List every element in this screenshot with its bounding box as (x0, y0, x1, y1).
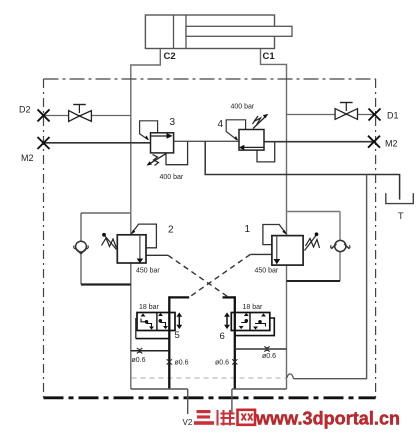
svg-text:18 bar: 18 bar (243, 304, 264, 311)
check valve right (331, 240, 350, 251)
wire drain drop to tank gallery (205, 141, 399, 199)
watermark 维 (218, 410, 236, 426)
counterbalance valve 1 body (272, 236, 303, 266)
svg-text:2: 2 (168, 225, 174, 236)
svg-text:D2: D2 (19, 105, 31, 115)
shutoff valve right (bowtie) (335, 103, 357, 120)
relief valve 4 pilot loop (226, 120, 245, 141)
boundary bottom thick dash-dot (44, 396, 376, 399)
svg-text:M2: M2 (21, 153, 34, 163)
relief valve 3 spring and arrow (147, 153, 167, 165)
svg-text:C2: C2 (164, 51, 176, 62)
wire bridge between pilot galleries (169, 296, 189, 298)
svg-text:450 bar: 450 bar (255, 268, 279, 275)
wire C2 line from cylinder down left side (131, 49, 161, 390)
relief valve 3 pilot loop (140, 121, 158, 140)
svg-text:V2: V2 (183, 418, 193, 427)
valve 6 internal check symbols (239, 313, 266, 330)
wire valve 1 pilot stub (250, 253, 272, 255)
svg-text:3: 3 (170, 117, 176, 128)
wire D2 line (44, 115, 131, 117)
orifice on valve 5 drain (137, 348, 142, 353)
check valve left loop (81, 213, 131, 285)
svg-text:4: 4 (218, 119, 224, 130)
hidden passage dashed grey (132, 377, 287, 379)
plugged port X M2 right (368, 136, 380, 148)
boundary left dashed (43, 79, 45, 398)
boundary top dash-dot (44, 78, 376, 80)
plugged port X D1 (369, 109, 381, 121)
svg-text:www.3dportal.cn: www.3dportal.cn (255, 409, 400, 429)
wire left gallery vertical (168, 296, 170, 389)
svg-text:ø0.6: ø0.6 (262, 353, 276, 360)
orifice on right gallery (232, 359, 237, 364)
pilot dashed line valve1 to left gallery (189, 254, 250, 297)
svg-text:400 bar: 400 bar (231, 104, 255, 111)
wire manifold bottom edge right (232, 388, 287, 390)
svg-text:D1: D1 (387, 111, 399, 121)
wire valve 6 drain loop (235, 318, 287, 349)
wire D1 line (287, 114, 375, 116)
wire right drain down line (294, 175, 367, 379)
svg-text:T: T (398, 211, 404, 221)
tank symbol T (386, 193, 414, 204)
orifice on valve 6 drain (264, 346, 269, 351)
watermark 网 (238, 410, 256, 425)
valve 6 pilot double arrow (224, 312, 230, 329)
cylinder rod (186, 26, 292, 36)
relief valve 3 drain loop (166, 141, 188, 164)
wire right gallery vertical (234, 296, 236, 389)
svg-text:450 bar: 450 bar (136, 268, 160, 275)
boundary right dashed (375, 79, 377, 398)
check valve left (74, 241, 89, 254)
counterbalance valve 1 spring (305, 232, 320, 250)
cylinder body (145, 15, 274, 49)
relief valve 4 drain loop (257, 142, 275, 162)
counterbalance valve 2 spring (102, 233, 117, 250)
relief valve 4 body (239, 130, 264, 151)
break squiggle on drain line (287, 374, 294, 379)
counterbalance valve 1 pilot loop (263, 225, 287, 245)
svg-text:ø0.6: ø0.6 (132, 357, 146, 364)
wire valve 2 pilot stub (146, 254, 168, 256)
svg-text:6: 6 (220, 331, 225, 342)
pilot dashed line valve2 to right gallery (168, 255, 228, 297)
counterbalance valve 2 pilot loop (131, 224, 157, 248)
plugged port X M2 left (38, 137, 50, 149)
check valve right loop (287, 212, 341, 282)
wire valve3 to valve4 interconnect (174, 140, 239, 142)
svg-text:ø0.6: ø0.6 (215, 360, 229, 367)
valve 5 pilot double arrow (176, 312, 182, 329)
pilot check valve 6 body (231, 313, 269, 331)
svg-text:18 bar: 18 bar (139, 304, 160, 311)
shutoff valve left (bowtie) (69, 105, 92, 122)
pilot check valve 5 body (137, 313, 175, 331)
svg-text:5: 5 (175, 330, 180, 341)
wire C1 line from cylinder down right side (261, 49, 287, 390)
port V2 tab (188, 389, 232, 414)
svg-text:ø0.6: ø0.6 (175, 360, 189, 367)
svg-text:400 bar: 400 bar (160, 174, 184, 181)
svg-text:C1: C1 (263, 51, 276, 62)
cylinder piston (174, 15, 187, 49)
wire M2 left line (44, 142, 151, 144)
wire valve 5 drain loop (131, 318, 170, 351)
counterbalance valve 2 body (117, 235, 146, 263)
plugged port X D2 (38, 109, 50, 121)
wire manifold bottom edge left (131, 388, 188, 390)
watermark 三 (194, 410, 214, 425)
svg-text:1: 1 (245, 224, 251, 235)
relief valve 3 body (151, 133, 174, 153)
wire M2 right line (264, 141, 375, 143)
relief valve 4 spring and arrow (253, 114, 269, 129)
orifice on left gallery (167, 359, 172, 364)
svg-text:M2: M2 (385, 139, 398, 149)
valve 5 internal check symbols (141, 313, 169, 330)
